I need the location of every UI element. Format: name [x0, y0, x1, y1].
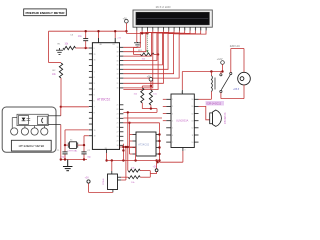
svg-text:28: 28 — [117, 136, 119, 138]
wire LCD data bus D0-D7 fan to U1 P0 — [123, 31, 206, 79]
svg-text:30: 30 — [117, 145, 119, 147]
svg-text:3: 3 — [94, 83, 95, 85]
power +12V — [217, 58, 225, 73]
crystal X1 — [64, 140, 85, 149]
wire LCD RW to U1 — [123, 31, 158, 90]
svg-text:23: 23 — [117, 114, 119, 116]
svg-text:9: 9 — [94, 48, 95, 50]
meter box body — [2, 107, 56, 152]
svg-text:+5V: +5V — [85, 177, 90, 179]
svg-text:+12V: +12V — [217, 58, 223, 61]
svg-text:35: 35 — [117, 65, 119, 67]
svg-text:22: 22 — [117, 109, 119, 111]
resistor R1 10k — [58, 43, 76, 49]
svg-text:9: 9 — [181, 92, 182, 94]
svg-text:+5V: +5V — [147, 76, 152, 79]
label X1 value CRYSTAL — [68, 150, 79, 153]
svg-text:+5V: +5V — [153, 167, 158, 169]
power +5V (pullups) — [147, 76, 153, 88]
svg-text:34: 34 — [117, 69, 119, 71]
svg-text:38: 38 — [117, 52, 119, 54]
meter optocoupler detail — [17, 114, 48, 125]
wire meter return — [48, 125, 61, 160]
svg-text:AT89C52: AT89C52 — [97, 97, 110, 101]
svg-text:8: 8 — [94, 112, 95, 114]
title box PREPAID ENERGY METER — [24, 9, 67, 16]
relay RL1 coil — [211, 72, 215, 100]
svg-text:29: 29 — [117, 141, 119, 143]
wire +5V rail top — [49, 31, 127, 62]
label 220V AC — [230, 44, 240, 48]
svg-text:G2R-14-DC12: G2R-14-DC12 — [206, 104, 221, 106]
svg-text:PREPAID ENERGY METER: PREPAID ENERGY METER — [25, 11, 65, 15]
svg-text:36: 36 — [117, 60, 119, 62]
svg-text:21: 21 — [117, 105, 119, 107]
ground (crystal) — [63, 160, 72, 171]
wire SCL to U1 — [123, 117, 162, 119]
resistor R2 10k — [52, 63, 63, 81]
wire U1 pin31 to +5V rail — [114, 30, 122, 39]
svg-text:30: 30 — [117, 88, 119, 90]
wire U3 left pins — [128, 122, 132, 154]
label U3 value AT24C02 — [138, 142, 149, 146]
wire RV1 right leg — [154, 53, 159, 55]
wire LCD RS to U1 — [123, 31, 152, 88]
wire coil to U2 out1 — [199, 98, 212, 100]
svg-text:1PH ENERGY METER: 1PH ENERGY METER — [18, 145, 44, 148]
wire U1 pin40 to +5V rail — [97, 30, 99, 38]
capacitor C1 33p — [57, 150, 68, 159]
wire bottom gnd run — [107, 159, 160, 161]
svg-text:33: 33 — [117, 74, 119, 76]
svg-text:4: 4 — [94, 89, 95, 91]
op IC U3 AT24C02 EEPROM — [133, 132, 160, 156]
resistor RV1 contrast pot — [138, 50, 154, 60]
wire crystal gnd rail — [60, 158, 87, 160]
svg-text:26: 26 — [117, 127, 119, 129]
svg-text:31: 31 — [117, 83, 119, 85]
op IC U1 AT89C52 microcontroller — [89, 38, 124, 150]
svg-text:+88.8: +88.8 — [233, 88, 240, 91]
wire LCD E to U1 — [123, 31, 163, 84]
wire 220V AC loop — [231, 49, 244, 73]
label RL1 G2R-14-DC12 — [206, 101, 225, 106]
wire XTAL1 to U1 — [84, 136, 89, 160]
relay RL1 contact — [220, 72, 232, 93]
svg-text:1: 1 — [94, 71, 95, 73]
svg-text:39: 39 — [117, 47, 119, 49]
wire U2 input stubs — [163, 99, 166, 120]
label M1 rpm — [233, 88, 240, 91]
svg-text:16 X 2 LCD: 16 X 2 LCD — [156, 5, 171, 9]
svg-text:8: 8 — [185, 150, 186, 152]
resistor R4 10k — [149, 86, 157, 105]
wire J1 bottom to +5V — [89, 183, 113, 192]
wire pullup bottoms — [142, 103, 157, 112]
ground (reset) — [56, 48, 63, 54]
connector J1 — [108, 171, 122, 192]
power +5V (J1) — [85, 177, 91, 183]
power +5V (U3 pullup) — [150, 159, 158, 173]
wire cluster — [120, 111, 136, 180]
label U1 value AT89C52 — [97, 97, 110, 101]
wire motor to contact — [221, 85, 244, 99]
svg-text:29: 29 — [94, 54, 96, 56]
wire U3 loop top — [123, 122, 159, 124]
svg-text:19: 19 — [94, 130, 96, 132]
svg-text:2: 2 — [94, 77, 95, 79]
label U2 value ULN2003A — [176, 119, 189, 122]
wire U1 pin20 down — [105, 149, 107, 161]
resistor R3 10k — [134, 86, 151, 103]
svg-text:27: 27 — [117, 132, 119, 134]
capacitor C3 10u — [70, 30, 88, 48]
wire U4 top pin riser — [111, 161, 113, 172]
wire U3 loop right — [158, 123, 160, 162]
wire XTAL2 to U1 — [65, 130, 89, 160]
resistor R6 10k — [121, 176, 140, 184]
wire meter node to U1 pin — [61, 106, 89, 108]
wire R5 R6 join — [140, 171, 150, 178]
wire U2 out2 to speaker — [199, 106, 210, 119]
svg-text:24: 24 — [117, 118, 119, 120]
svg-text:32: 32 — [117, 78, 119, 80]
speaker LS1 — [210, 110, 222, 126]
wire RV1 left leg — [134, 48, 141, 55]
op IC U2 ULN2003A driver — [166, 90, 198, 152]
svg-text:30: 30 — [94, 60, 96, 62]
display LCD1 16x2 LCD module — [133, 10, 212, 27]
svg-text:25: 25 — [117, 123, 119, 125]
capacitor C2 33p — [81, 150, 91, 159]
svg-text:7: 7 — [94, 106, 95, 108]
svg-text:6: 6 — [94, 101, 95, 103]
svg-text:18: 18 — [94, 136, 96, 138]
svg-text:37: 37 — [117, 56, 119, 58]
label J1 — [103, 178, 105, 185]
ground (LCD VSS) — [134, 42, 141, 47]
label LS1 SOUNDER — [223, 113, 225, 125]
power +5V top terminal — [123, 17, 129, 32]
svg-text:5: 5 — [94, 95, 95, 97]
svg-text:+5V: +5V — [117, 37, 121, 39]
svg-text:CONN: CONN — [103, 178, 105, 185]
wire meter pulse out — [48, 107, 61, 116]
wire U3 gnd run to U2 pin8 — [156, 151, 182, 163]
wire U2 COM pin9 to +12V rail — [182, 70, 222, 90]
motor M1 — [238, 72, 251, 85]
LCD pins 1-14 — [136, 27, 207, 31]
wire LCD VSS — [136, 31, 138, 42]
wire SDA to U1 — [123, 111, 157, 113]
svg-text:SOUNDER: SOUNDER — [223, 113, 225, 125]
resistor R5 10k — [128, 167, 140, 172]
wire R2 to meter node — [60, 81, 62, 108]
meter internal wires — [12, 118, 44, 128]
wire R1 to RST node — [76, 47, 87, 49]
meter label plate — [11, 140, 51, 151]
wire LCD VEE to wiper — [146, 31, 148, 53]
wire LCD VDD bus — [126, 31, 148, 35]
wire RST to U1 — [86, 47, 89, 49]
label 16 X 2 LCD — [156, 5, 171, 9]
meter indicator terminals — [11, 128, 48, 135]
svg-text:+5V: +5V — [123, 17, 128, 20]
svg-text:ULN2003A: ULN2003A — [176, 119, 189, 122]
